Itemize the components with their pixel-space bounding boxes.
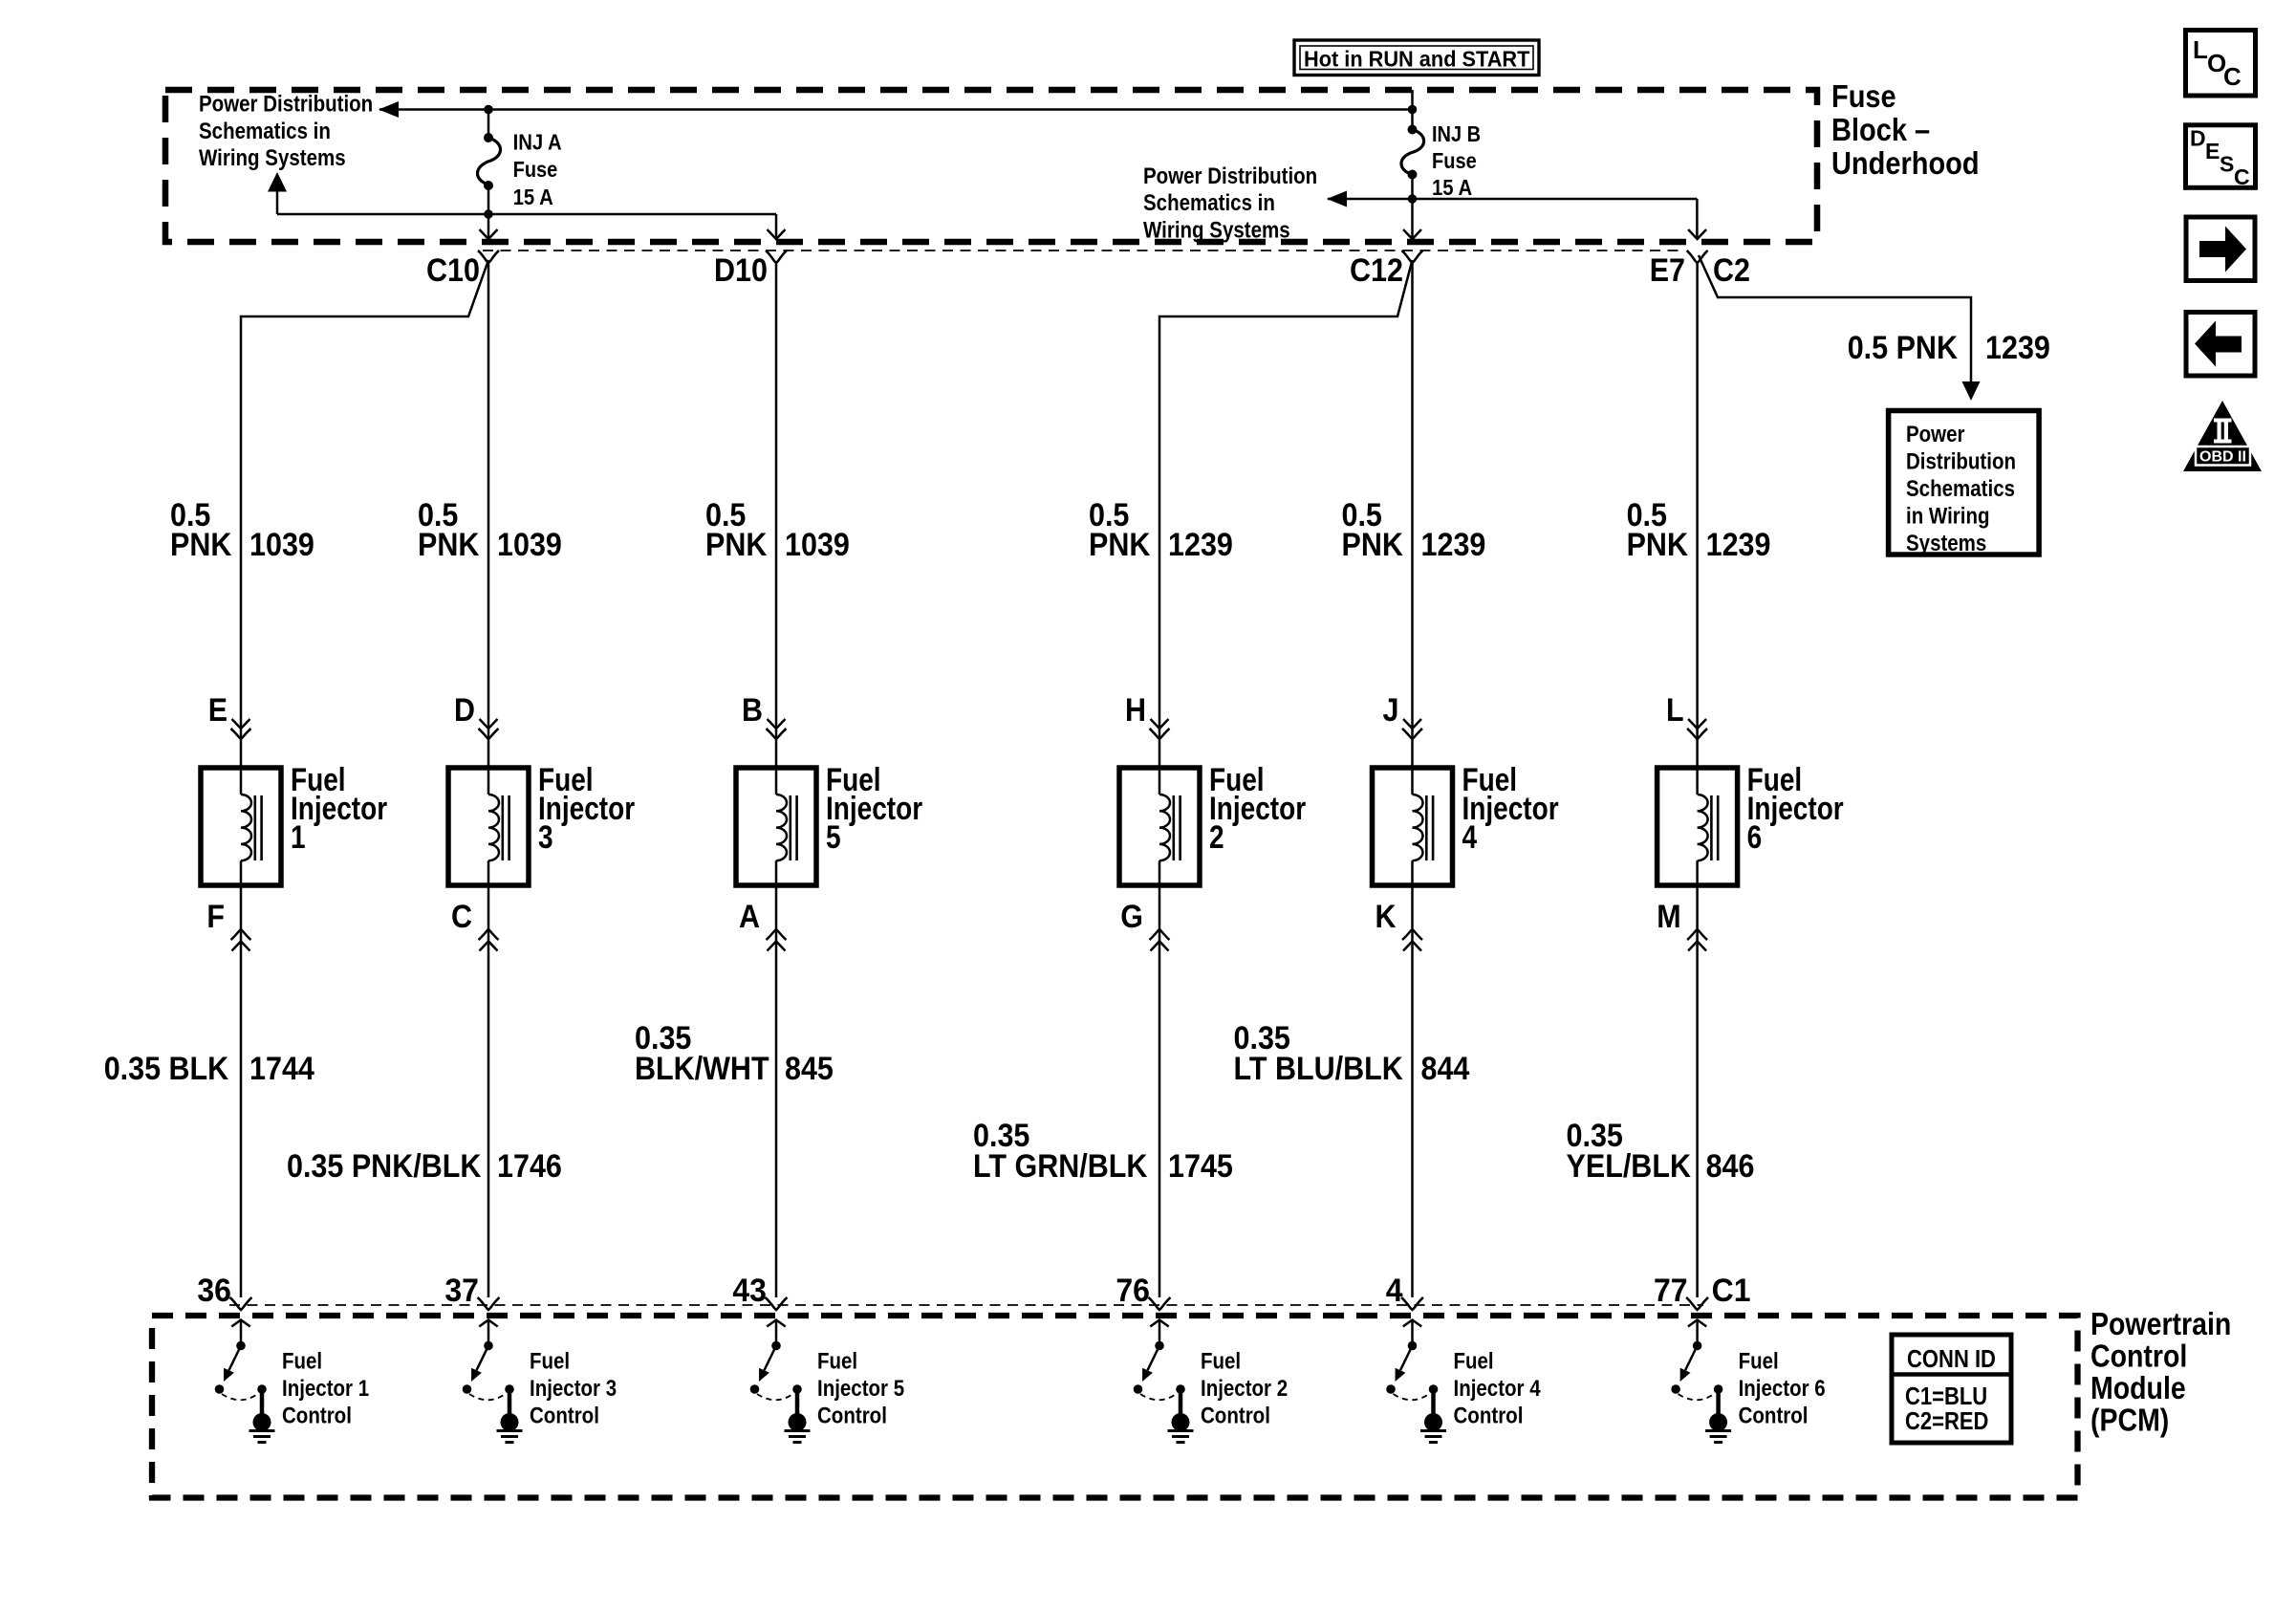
svg-text:Control: Control: [1201, 1404, 1270, 1429]
svg-text:D: D: [2190, 126, 2206, 151]
wire corner to E7: [1696, 199, 1699, 238]
connector strip (thin dashed): [483, 250, 1684, 251]
svg-text:Injector 2: Injector 2: [1201, 1376, 1288, 1402]
wire: INJ A distribution line: [277, 213, 776, 216]
svg-text:Injector 6: Injector 6: [1739, 1376, 1826, 1402]
svg-text:Fuse: Fuse: [1831, 79, 1896, 115]
icon: OBD II: [2183, 401, 2262, 471]
svg-text:845: 845: [785, 1051, 834, 1087]
svg-text:Control: Control: [2090, 1339, 2187, 1374]
wire fuel injector 3 to PCM: [487, 885, 490, 1297]
svg-text:Power Distribution: Power Distribution: [199, 91, 373, 117]
injector 2 driver switch: [1159, 1321, 1161, 1342]
svg-text:Control: Control: [817, 1404, 887, 1429]
junction: INJ B distribution: [1408, 194, 1418, 204]
svg-text:Power: Power: [1906, 422, 1965, 447]
svg-text:Injector 4: Injector 4: [1454, 1376, 1542, 1402]
thin dashed connector strip at PCM: [229, 1304, 1703, 1306]
svg-text:Control: Control: [282, 1404, 352, 1429]
svg-text:1039: 1039: [249, 527, 314, 563]
arrow into E7: [1688, 229, 1706, 239]
svg-text:C10: C10: [426, 252, 480, 289]
svg-text:M: M: [1657, 899, 1680, 935]
injector 6 driver ground: [1716, 1389, 1721, 1415]
svg-text:CONN ID: CONN ID: [1907, 1344, 1996, 1373]
svg-text:0.35 BLK: 0.35 BLK: [104, 1051, 229, 1087]
svg-text:Systems: Systems: [1906, 531, 1986, 556]
fuel injector 4 (solenoid): [1373, 768, 1453, 885]
svg-text:A: A: [739, 899, 760, 935]
wire fuel injector 6 to PCM: [1696, 885, 1699, 1297]
wire connector to fuel injector 5: [775, 263, 778, 768]
svg-text:C12: C12: [1350, 252, 1403, 289]
svg-text:Injector 1: Injector 1: [282, 1376, 369, 1402]
svg-text:L: L: [1666, 692, 1684, 729]
svg-text:B: B: [742, 692, 763, 729]
svg-text:0.35 PNK/BLK: 0.35 PNK/BLK: [287, 1148, 482, 1185]
svg-text:BLK/WHT: BLK/WHT: [635, 1051, 769, 1087]
svg-text:PNK: PNK: [1627, 527, 1689, 563]
wire fuel injector 1 to PCM: [240, 885, 243, 1297]
wire fuse INJ B down: [1411, 175, 1414, 239]
svg-text:LT GRN/BLK: LT GRN/BLK: [973, 1148, 1148, 1185]
svg-text:PNK: PNK: [170, 527, 232, 563]
injector 5 driver ground: [795, 1389, 800, 1415]
svg-text:0.5 PNK: 0.5 PNK: [1848, 330, 1959, 366]
injector 1 driver ground: [260, 1389, 265, 1415]
svg-text:Fuel: Fuel: [817, 1349, 857, 1375]
svg-text:Control: Control: [1454, 1404, 1524, 1429]
wire: INJ B distribution line: [1328, 198, 1697, 201]
svg-text:LT BLU/BLK: LT BLU/BLK: [1234, 1051, 1404, 1087]
injector 2 driver ground: [1179, 1389, 1183, 1415]
fuel injector 2 (solenoid): [1119, 768, 1200, 885]
svg-text:S: S: [2220, 152, 2234, 177]
wire fuel injector 2 to PCM: [1159, 885, 1161, 1297]
svg-text:(PCM): (PCM): [2090, 1403, 2169, 1438]
powertrain control module (dashed outline): [152, 1316, 2078, 1498]
connector E7: [1687, 250, 1708, 263]
svg-text:Control: Control: [530, 1404, 599, 1429]
svg-text:Injector 5: Injector 5: [817, 1376, 904, 1402]
svg-text:C2=RED: C2=RED: [1905, 1406, 1988, 1435]
junction: INJ A distribution: [484, 209, 493, 219]
fuse INJ A 15A: [484, 133, 493, 142]
svg-text:1039: 1039: [497, 527, 562, 563]
svg-text:L: L: [2193, 35, 2208, 64]
svg-text:1239: 1239: [1168, 527, 1233, 563]
svg-text:INJ B: INJ B: [1432, 121, 1481, 146]
svg-text:C2: C2: [1713, 252, 1750, 289]
wire bus to fuse INJ B: [1411, 110, 1414, 130]
svg-text:1039: 1039: [785, 527, 850, 563]
svg-text:G: G: [1120, 899, 1143, 935]
svg-text:YEL/BLK: YEL/BLK: [1567, 1148, 1692, 1185]
wire fuel injector 5 to PCM: [775, 885, 778, 1297]
svg-text:Fuse: Fuse: [513, 157, 558, 182]
wire fuse INJ A to junction: [487, 185, 490, 214]
svg-text:Power Distribution: Power Distribution: [1143, 163, 1317, 189]
svg-text:PNK: PNK: [1342, 527, 1404, 563]
svg-text:Fuel: Fuel: [1739, 1349, 1779, 1375]
svg-text:Schematics in: Schematics in: [199, 119, 331, 144]
svg-text:1746: 1746: [497, 1148, 562, 1185]
svg-text:Block –: Block –: [1831, 113, 1930, 148]
svg-text:PNK: PNK: [418, 527, 480, 563]
svg-text:4: 4: [1462, 819, 1478, 856]
icon: DESC: [2186, 125, 2256, 188]
svg-text:Module: Module: [2090, 1370, 2186, 1405]
injector 3 driver ground: [508, 1389, 512, 1415]
svg-text:PNK: PNK: [1089, 527, 1151, 563]
svg-text:Schematics: Schematics: [1906, 476, 2015, 502]
icon: LOC: [2186, 31, 2256, 97]
svg-text:36: 36: [197, 1273, 231, 1309]
svg-text:1: 1: [291, 819, 306, 856]
svg-text:2: 2: [1209, 819, 1224, 856]
wire kink from connector to injector 1 column: [241, 260, 488, 768]
svg-text:Control: Control: [1739, 1404, 1809, 1429]
injector 4 driver ground: [1431, 1389, 1436, 1415]
junction: bus / INJ B drop: [1408, 105, 1418, 115]
svg-text:1744: 1744: [249, 1051, 314, 1087]
fuel injector 6 (solenoid): [1657, 768, 1738, 885]
svg-text:5: 5: [826, 819, 841, 856]
wire connector to fuel injector 6: [1696, 263, 1699, 768]
wire bus to fuse INJ A: [487, 110, 490, 139]
svg-text:Fuel: Fuel: [282, 1349, 322, 1375]
svg-text:43: 43: [732, 1273, 767, 1309]
svg-text:Injector 3: Injector 3: [530, 1376, 617, 1402]
svg-text:Distribution: Distribution: [1906, 449, 2016, 475]
wire: top feed bus: [379, 108, 1413, 111]
connector C12: [1402, 250, 1423, 263]
svg-text:C: C: [2234, 164, 2250, 189]
svg-text:846: 846: [1706, 1148, 1755, 1185]
wire fuel injector 4 to PCM: [1411, 885, 1414, 1297]
arrow down into power distribution box: [1962, 381, 1981, 401]
node: Hot in RUN and START box: [1294, 40, 1539, 76]
injector 5 driver switch: [775, 1321, 778, 1342]
svg-text:E: E: [208, 692, 227, 729]
svg-text:C1: C1: [1712, 1273, 1751, 1309]
wire corner to D10: [775, 214, 778, 238]
svg-text:D: D: [454, 692, 475, 729]
svg-text:76: 76: [1116, 1273, 1150, 1309]
connector D10: [766, 250, 787, 263]
svg-text:15 A: 15 A: [513, 185, 553, 209]
svg-text:15 A: 15 A: [1432, 175, 1472, 200]
svg-text:1745: 1745: [1168, 1148, 1233, 1185]
svg-text:Fuel: Fuel: [530, 1349, 570, 1375]
svg-text:4: 4: [1386, 1273, 1403, 1309]
svg-text:Wiring Systems: Wiring Systems: [1143, 217, 1290, 243]
svg-text:E7: E7: [1650, 252, 1685, 289]
svg-text:Fuel: Fuel: [1201, 1349, 1241, 1375]
svg-text:Fuse: Fuse: [1432, 148, 1477, 173]
svg-text:Wiring Systems: Wiring Systems: [199, 145, 346, 171]
node: Power Distribution Schematics box: [1889, 411, 2040, 555]
connector C10: [478, 250, 499, 263]
arrow into D10: [768, 229, 786, 239]
svg-text:K: K: [1375, 899, 1397, 935]
svg-text:in Wiring: in Wiring: [1906, 504, 1990, 530]
wire connector to fuel injector 3: [487, 263, 490, 768]
wire: riser to up arrow: [276, 189, 279, 214]
svg-text:1239: 1239: [1706, 527, 1771, 563]
svg-text:D10: D10: [714, 252, 768, 289]
node: CONN ID table: [1892, 1335, 2011, 1443]
fuel injector 1 (solenoid): [201, 768, 281, 885]
svg-text:844: 844: [1421, 1051, 1470, 1087]
svg-text:Underhood: Underhood: [1831, 146, 1980, 182]
wire from Hot box into fuse block: [1411, 90, 1414, 110]
fuse block - underhood (dashed outline): [165, 90, 1817, 242]
svg-text:F: F: [206, 899, 225, 935]
arrow into C12: [1403, 229, 1421, 239]
wire to C10: [487, 214, 490, 238]
fuel injector 3 (solenoid): [448, 768, 529, 885]
injector 3 driver switch: [487, 1321, 490, 1342]
svg-text:Powertrain: Powertrain: [2090, 1306, 2231, 1341]
arrow to power distribution schematics (left): [379, 101, 399, 118]
svg-text:1239: 1239: [1985, 330, 2050, 366]
svg-text:C: C: [2223, 62, 2242, 91]
svg-text:H: H: [1125, 692, 1146, 729]
svg-text:Schematics in: Schematics in: [1143, 190, 1275, 216]
svg-text:PNK: PNK: [705, 527, 768, 563]
svg-text:INJ A: INJ A: [513, 130, 562, 155]
wire connector to fuel injector 4: [1411, 263, 1414, 768]
injector 4 driver switch: [1411, 1321, 1414, 1342]
icon: arrow left: [2186, 313, 2255, 377]
wire kink from connector to injector 2 column: [1159, 260, 1413, 768]
injector 6 driver switch: [1696, 1321, 1699, 1342]
injector 1 driver switch: [240, 1321, 243, 1342]
svg-text:37: 37: [444, 1273, 479, 1309]
svg-text:OBD II: OBD II: [2199, 449, 2246, 466]
svg-text:1239: 1239: [1421, 527, 1486, 563]
arrow to power distribution schematics (mid): [1327, 191, 1347, 207]
arrow up to schematics text: [268, 172, 287, 192]
svg-text:Fuel: Fuel: [1454, 1349, 1494, 1375]
svg-text:Hot in RUN and START: Hot in RUN and START: [1304, 47, 1529, 72]
wire C2 branch: [1699, 255, 1971, 382]
svg-text:C: C: [451, 899, 472, 935]
svg-text:6: 6: [1747, 819, 1763, 856]
junction: bus / INJ A fuse: [484, 105, 493, 115]
svg-text:3: 3: [538, 819, 553, 856]
fuel injector 5 (solenoid): [736, 768, 816, 885]
icon: arrow right: [2186, 217, 2255, 281]
arrow into C10: [480, 229, 498, 239]
svg-text:77: 77: [1654, 1273, 1688, 1309]
fuse INJ B 15A: [1408, 125, 1418, 135]
svg-text:J: J: [1383, 692, 1399, 729]
svg-text:E: E: [2205, 139, 2220, 163]
